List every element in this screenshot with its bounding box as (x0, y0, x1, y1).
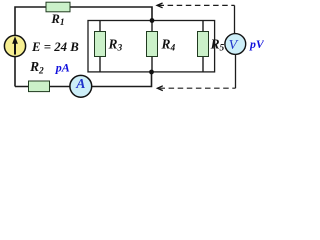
resistor R4 (147, 32, 176, 57)
svg-text:pV: pV (249, 37, 264, 51)
wire top (outer loop top, with drop to parallel rail) (15, 7, 152, 87)
wire R3 branch (99, 21, 101, 73)
resistor R3 (95, 32, 123, 57)
voltmeter V (225, 34, 246, 55)
source E (EMF) (4, 35, 25, 56)
wire R4 branch (151, 21, 153, 73)
svg-text:E = 24 В: E = 24 В (31, 40, 79, 54)
wire voltmeter top dashed run (159, 4, 235, 6)
svg-text:V: V (229, 38, 239, 53)
resistor R5 (198, 32, 225, 57)
node top junction dot (150, 18, 155, 23)
wire voltmeter top lead (234, 5, 236, 33)
wire parallel-network rectangle (88, 21, 215, 72)
resistor R2 (29, 59, 50, 91)
svg-text:pA: pA (55, 61, 70, 75)
bottom dashed arrowhead (157, 86, 162, 91)
svg-text:A: A (75, 76, 85, 91)
node bottom junction dot (149, 70, 154, 75)
ammeter A (70, 75, 92, 97)
wire voltmeter bottom dashed run (160, 87, 236, 89)
resistor R1 (46, 2, 70, 28)
top dashed arrowhead (157, 3, 163, 8)
wire voltmeter bottom lead (235, 54, 237, 88)
wire R5 branch (202, 21, 204, 73)
wire bottom (outer loop bottom, riser to rail) (15, 72, 152, 87)
